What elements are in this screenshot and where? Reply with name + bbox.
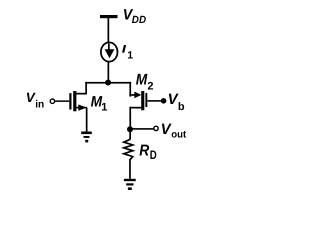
wire Vout node to resistor (129, 129, 131, 139)
wire current source to node X (108, 62, 110, 83)
node X horizontal wire (85, 82, 131, 84)
transistor M1 gate bar (69, 93, 71, 109)
svg-text:out: out (171, 129, 187, 140)
svg-text:V: V (26, 90, 36, 105)
node X junction dot (105, 80, 111, 86)
label I1 (122, 45, 126, 53)
Vin input terminal (50, 99, 54, 103)
svg-text:DD: DD (132, 14, 147, 26)
wire M1 drain vertical (85, 82, 87, 94)
VDD supply bar (100, 15, 118, 18)
M2 drain leg (129, 107, 141, 109)
wire resistor to ground (129, 159, 131, 179)
wire VDD bar to current source (108, 18, 110, 43)
transistor M2 gate bar (145, 93, 147, 107)
svg-text:b: b (178, 101, 185, 113)
wire M1 source to ground (86, 108, 88, 132)
svg-text:R: R (139, 142, 149, 159)
ground (M1 source) (81, 132, 92, 135)
Vout open terminal (154, 126, 158, 130)
resistor RD zigzag (124, 139, 133, 159)
transistor M2 channel bar (141, 91, 144, 110)
svg-text:D: D (150, 148, 157, 162)
M2 gate wire (147, 100, 161, 102)
M1 drain leg (76, 93, 87, 95)
Vout stub wire (130, 128, 153, 130)
M1 gate wire (55, 100, 69, 102)
M2 source leg with arrow (129, 94, 136, 96)
Vb terminal bullet (161, 98, 167, 104)
current source I1 (101, 42, 118, 61)
svg-text:2: 2 (147, 81, 153, 93)
svg-text:1: 1 (127, 50, 133, 62)
Vout junction dot (127, 126, 133, 132)
M1 source leg with arrow (76, 107, 87, 109)
wire node X to M2 source (vertical) (129, 82, 131, 97)
ground (RD bottom) (124, 179, 136, 181)
svg-text:in: in (35, 99, 44, 111)
wire M2 drain to Vout node (129, 107, 131, 130)
svg-text:1: 1 (101, 101, 107, 113)
transistor M1 channel bar (73, 91, 76, 111)
